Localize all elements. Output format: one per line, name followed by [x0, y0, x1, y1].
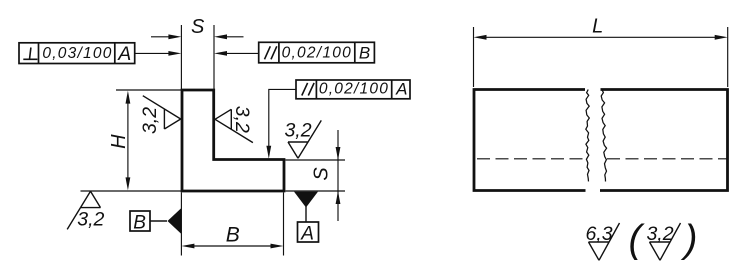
svg-text:L: L: [592, 16, 603, 38]
extension line B left: [180, 193, 182, 256]
extension line bottom left: [81, 190, 182, 192]
svg-text:0,02/100: 0,02/100: [319, 81, 389, 98]
svg-text:B: B: [133, 213, 146, 234]
svg-text:3,2: 3,2: [77, 209, 104, 231]
profile outline L-shape: [182, 90, 284, 191]
parallelism frame: // 0,02/100 B: [259, 42, 375, 63]
break line left (wavy): [586, 90, 590, 182]
dimension S top: [151, 34, 244, 39]
break line right (wavy): [601, 90, 606, 182]
svg-text:3,2: 3,2: [284, 120, 311, 142]
svg-text:B: B: [359, 44, 370, 63]
dimension L: [474, 35, 728, 40]
hidden edge dashed centerline: [477, 158, 727, 160]
extension line B right: [283, 193, 285, 256]
datum B: [130, 208, 181, 234]
dimension S right side: [336, 130, 341, 221]
svg-text:3,2: 3,2: [231, 106, 253, 133]
leader from frame A down to flange top: [266, 89, 296, 158]
leader from perpendicularity frame: [135, 51, 182, 56]
roughness 6,3 general: [585, 223, 619, 260]
roughness 3,2 on flange top face: [284, 120, 321, 159]
svg-text:0,03/100: 0,03/100: [42, 45, 112, 62]
datum A: [294, 192, 319, 245]
svg-text:S: S: [191, 16, 205, 38]
extension line S right top: [286, 159, 346, 161]
dimension H: [126, 91, 131, 191]
svg-text:A: A: [300, 223, 314, 244]
extension line S right bottom: [286, 190, 346, 192]
svg-text:S: S: [311, 167, 333, 181]
roughness 3,2 alternative: [646, 223, 680, 260]
extension line H top: [116, 89, 181, 91]
extension line S top left: [180, 25, 182, 89]
parallelism frame: // 0,02/100 A: [296, 80, 410, 99]
svg-text:0,02/100: 0,02/100: [282, 44, 352, 61]
svg-text:3,2: 3,2: [646, 223, 673, 245]
svg-text:H: H: [108, 134, 130, 149]
roughness 3,2 on right face of leg (rotated +90): [215, 106, 253, 143]
svg-text:6,3: 6,3: [585, 223, 612, 245]
svg-text:A: A: [395, 80, 407, 99]
svg-text:3,2: 3,2: [139, 107, 161, 134]
svg-text:B: B: [226, 224, 240, 247]
perpendicularity frame: perp 0,03/100 A: [19, 43, 135, 65]
bar outline (side view): [474, 90, 728, 191]
dimension B: [181, 244, 283, 249]
leader from parallelism frame B: [214, 51, 259, 56]
svg-text:A: A: [117, 43, 131, 65]
extension line L left: [473, 27, 475, 87]
roughness 3,2 on left face (rotated -90): [139, 96, 181, 134]
roughness 3,2 on bottom face (upside-down): [67, 191, 104, 230]
extension line L right: [727, 27, 729, 87]
extension line S top right: [213, 25, 215, 89]
